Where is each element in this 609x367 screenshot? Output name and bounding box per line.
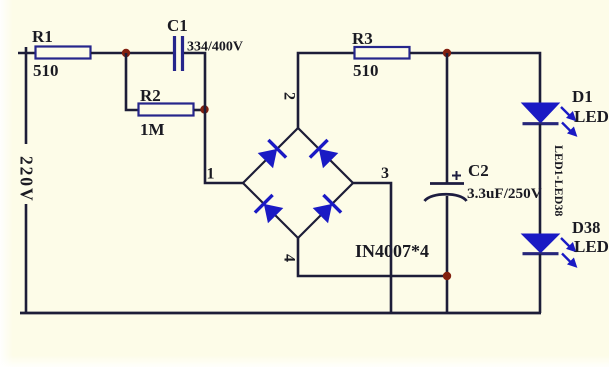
junction dot node D (C2/bridge node4 bus) [443,272,451,280]
junction dot node A (R1/C1/R2) [122,49,130,57]
capacitor C2 (electrolytic) [425,184,467,202]
junction dot node B (R2/C1 right) [200,105,208,113]
svg-text:D1: D1 [572,87,593,106]
LED D38 emission arrows [561,238,576,266]
LED D38 cathode bar [523,252,559,255]
resistor R1 [36,47,91,59]
junction dot node C (R3/C2) [443,49,451,57]
C2 polarity plus sign [452,171,461,180]
svg-text:3: 3 [381,165,389,182]
svg-text:D38: D38 [572,218,600,237]
svg-text:LED: LED [574,107,609,126]
svg-text:LED: LED [574,237,609,256]
svg-text:1M: 1M [140,120,165,139]
wire: R2 right lead [194,109,205,112]
wire: bridge node 4 down and right to C2 branch [298,238,447,276]
svg-text:LED1-LED38: LED1-LED38 [552,145,566,216]
wire: D1 to D38 [539,124,542,235]
wire: bridge node 2 up to R3 [298,53,354,128]
svg-text:4: 4 [281,254,298,262]
svg-text:R2: R2 [140,86,161,105]
svg-text:510: 510 [33,61,59,80]
svg-text:3.3uF/250V: 3.3uF/250V [467,185,542,202]
svg-text:1: 1 [207,166,215,183]
bridge rectifier diamond wires [243,128,353,238]
LED D1 [523,104,558,123]
diode D-TL (bridge top-left, IN4007) [259,140,286,167]
svg-text:R1: R1 [32,27,53,46]
wire: R1 to C1 [91,52,173,55]
svg-text:510: 510 [353,61,379,80]
wire: C2 branch vertical bottom [446,196,449,313]
LED D1 cathode bar [523,122,559,125]
resistor R2 [139,104,194,116]
wire: bottom bus [20,312,541,315]
svg-text:C2: C2 [468,161,489,180]
wire: C1 right lead and vertical down to bridge node 1 [184,53,243,183]
capacitor C1 [175,36,183,71]
wire: C2 branch vertical top [446,53,449,183]
wire: left vertical upper (220V line) [25,47,28,144]
svg-text:220V: 220V [17,156,37,203]
svg-text:C1: C1 [167,16,188,35]
wire: left vertical lower [25,204,28,313]
LED D38 [523,235,558,253]
LED D1 emission arrows [561,107,576,135]
wire: R3 to LED chain top [410,53,540,104]
wire: D38 to bottom bus [539,254,542,313]
svg-text:2: 2 [281,92,298,100]
diode D-BR (bridge bottom-right, IN4007) [314,195,341,222]
resistor R3 [355,47,410,59]
svg-text:R3: R3 [352,29,373,48]
diode D-TR (bridge top-right, IN4007) [310,140,337,167]
wire: AC input left stub [18,52,35,55]
wire: junction down to R2 [126,53,138,110]
wire: bridge node 3 to bottom bus [353,183,391,313]
diode D-BL (bridge bottom-left, IN4007) [255,195,282,222]
